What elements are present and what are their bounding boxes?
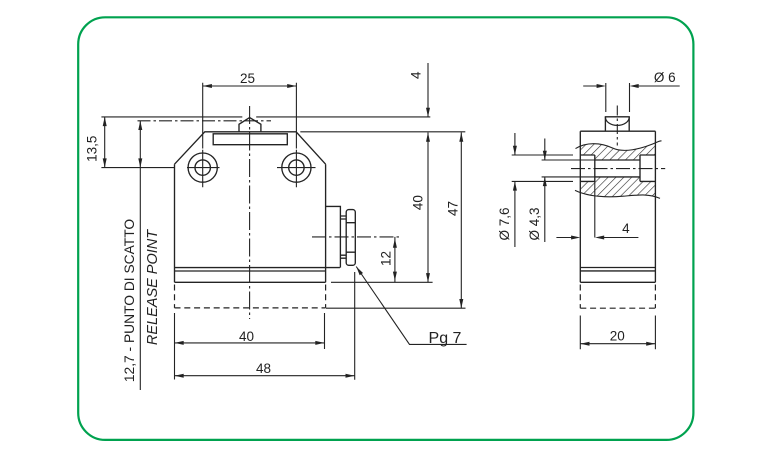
- svg-text:20: 20: [610, 329, 625, 344]
- svg-text:12,7 - PUNTO DI SCATTO: 12,7 - PUNTO DI SCATTO: [122, 219, 137, 383]
- svg-text:40: 40: [410, 195, 425, 210]
- svg-text:4: 4: [409, 71, 424, 79]
- svg-text:47: 47: [446, 201, 461, 216]
- svg-text:RELEASE POINT: RELEASE POINT: [145, 229, 161, 345]
- svg-text:Ø 4,3: Ø 4,3: [527, 207, 542, 240]
- svg-text:40: 40: [239, 329, 254, 344]
- svg-text:48: 48: [256, 361, 271, 376]
- svg-text:Pg 7: Pg 7: [429, 330, 462, 347]
- svg-text:13,5: 13,5: [84, 136, 99, 162]
- svg-text:12: 12: [378, 251, 393, 266]
- svg-text:Ø 6: Ø 6: [654, 70, 676, 85]
- svg-text:4: 4: [622, 221, 630, 236]
- svg-text:Ø 7,6: Ø 7,6: [497, 207, 512, 240]
- svg-text:25: 25: [240, 71, 255, 86]
